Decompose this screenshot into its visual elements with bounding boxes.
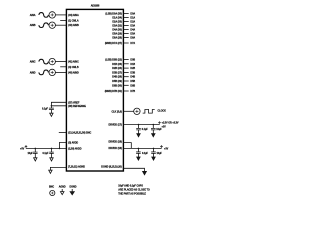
wire J3 to pin AINC (55, 61, 66, 63)
ground DGND C7 (152, 157, 155, 160)
node junction VREF (51, 105, 53, 107)
svg-text:D6B: D6B (130, 84, 135, 87)
capacitor C4 0.1uF (136, 125, 141, 130)
svg-text:(43) AINB: (43) AINB (68, 24, 79, 27)
BNC J5 clock (134, 108, 140, 114)
wire CMLB stub (60, 66, 66, 68)
svg-text:(3) AVDD: (3) AVDD (68, 141, 78, 144)
wire D1B (124, 63, 129, 65)
wire D1A (124, 17, 129, 19)
ground AGND C2 (34, 158, 37, 161)
BNC J3 (49, 58, 55, 64)
svg-text:(4) CMLB: (4) CMLB (68, 66, 79, 69)
BNC J4 (49, 69, 55, 75)
wire D5A (124, 33, 129, 35)
svg-text:D7A: D7A (130, 42, 135, 45)
wire D6B (124, 84, 129, 86)
svg-text:THE PART AS POSSIBLE: THE PART AS POSSIBLE (118, 192, 146, 195)
svg-text:D6A (28): D6A (28) (112, 37, 122, 40)
svg-text:0.1µF: 0.1µF (43, 152, 50, 155)
wire CMLA stub (60, 20, 66, 22)
wire AVDD rail (26, 147, 66, 149)
wire D2B (124, 67, 129, 69)
wire D4A (124, 29, 129, 31)
ground DGND (143, 171, 147, 174)
svg-text:D1B: D1B (130, 63, 135, 66)
node junction C3 (51, 148, 53, 150)
wire J4 to pin AIND (55, 71, 66, 73)
capacitor C3 0.1uF (49, 148, 54, 153)
ground DGND C6 (137, 157, 140, 160)
svg-text:DRVDD (18): DRVDD (18) (109, 140, 122, 143)
svg-text:D0A: D0A (130, 13, 135, 16)
svg-text:D1B (23): D1B (23) (112, 63, 122, 66)
svg-text:10µF: 10µF (156, 128, 162, 131)
svg-text:(2,39) AVDD: (2,39) AVDD (68, 147, 82, 150)
svg-text:D0B: D0B (130, 59, 135, 62)
svg-text:AD9288: AD9288 (91, 4, 100, 7)
wire sine B2 (39, 70, 49, 75)
ground AGND left (49, 170, 52, 173)
svg-text:DGND (8,15,19,26): DGND (8,15,19,26) (101, 166, 122, 169)
svg-text:(44) AINA: (44) AINA (68, 14, 79, 17)
svg-text:D5A (29): D5A (29) (112, 33, 122, 36)
wire REFSENSE (51, 106, 66, 108)
svg-text:10µF: 10µF (28, 152, 34, 155)
svg-text:D6A: D6A (130, 37, 135, 40)
node clock waveform (143, 110, 155, 114)
ground DGND C4 (137, 134, 140, 137)
svg-text:D3B: D3B (130, 71, 135, 74)
wire DRVDD1 rail (124, 124, 160, 126)
svg-text:D1A: D1A (130, 17, 135, 20)
op-amp U1 ADC AD9288 body (66, 9, 123, 171)
wire D6A (124, 37, 129, 39)
svg-text:D5A: D5A (130, 33, 135, 36)
svg-text:(LSB) D0B (22): (LSB) D0B (22) (105, 59, 122, 62)
svg-text:D3B (27): D3B (27) (112, 71, 122, 74)
svg-text:+3V: +3V (164, 148, 169, 151)
wire D0A (124, 13, 129, 15)
svg-text:(LSB) D0A (35): (LSB) D0A (35) (105, 13, 122, 16)
ground AGND C1 (50, 113, 53, 116)
node junction C6 (138, 148, 140, 150)
capacitor C7 10uF (151, 148, 156, 153)
svg-text:D3A (32): D3A (32) (112, 25, 122, 28)
svg-text:BNC: BNC (49, 186, 54, 189)
svg-text:(1) CMLA: (1) CMLA (68, 20, 79, 23)
svg-text:D7B: D7B (130, 90, 135, 93)
ground DGND C5 (152, 134, 155, 137)
svg-text:D5B: D5B (130, 80, 135, 83)
capacitor C2 10uF (33, 148, 38, 153)
capacitor C5 10uF (151, 125, 156, 130)
svg-text:+2.5V OR +3.3V: +2.5V OR +3.3V (162, 122, 179, 125)
node junction C2 (35, 148, 37, 150)
svg-text:(40) AIND: (40) AIND (68, 71, 79, 74)
wire D5B (124, 80, 129, 82)
svg-text:AINC: AINC (30, 61, 36, 64)
svg-text:D4B: D4B (130, 76, 135, 79)
svg-text:CLOCK: CLOCK (158, 110, 167, 113)
node junction C5 (153, 124, 155, 126)
BNC J2 (49, 22, 55, 28)
node +3V arrow right1 (158, 122, 160, 125)
wire DRVDD3 rail (124, 147, 162, 149)
wire D2A (124, 21, 129, 23)
svg-text:(MSB) D7B (31): (MSB) D7B (31) (105, 90, 122, 93)
BNC J1 (49, 12, 55, 18)
svg-text:(MSB) D7A (27): (MSB) D7A (27) (105, 42, 122, 45)
wire DGND (123, 168, 144, 171)
svg-text:D2A: D2A (130, 21, 135, 24)
capacitor C6 0.1uF (136, 148, 141, 153)
svg-text:(13,14,25,31,36) DNC: (13,14,25,31,36) DNC (68, 132, 91, 135)
svg-text:DGND: DGND (70, 186, 77, 189)
wire sine A2 (39, 23, 49, 28)
svg-text:0.1µF: 0.1µF (142, 152, 149, 155)
svg-text:D4B (28): D4B (28) (112, 76, 122, 79)
wire sine A1 (39, 13, 49, 18)
svg-text:CLK (5,6): CLK (5,6) (111, 110, 122, 113)
svg-text:10µF: 10µF (157, 152, 163, 155)
wire DNC stub (59, 132, 67, 134)
wire DRVDD2 stub (123, 143, 131, 149)
wire J1 to pin AINA (55, 14, 66, 16)
capacitor C1 0.1uF (49, 108, 54, 109)
svg-text:D1A (34): D1A (34) (112, 17, 122, 20)
svg-text:D3A: D3A (130, 25, 135, 28)
wire D4B (124, 76, 129, 78)
node junction AVDD stub (59, 148, 61, 150)
wire CLK (124, 110, 134, 112)
svg-text:(7,20,21) AGND: (7,20,21) AGND (68, 166, 85, 169)
svg-text:AINB: AINB (30, 24, 36, 27)
svg-text:D4A (30): D4A (30) (112, 29, 122, 32)
svg-text:(41) AINC: (41) AINC (68, 61, 79, 64)
wire D7B (124, 90, 129, 92)
wire AGND (50, 167, 66, 170)
node junction C4 (138, 124, 140, 126)
node +5V (25, 146, 27, 149)
svg-text:DRVDD (16): DRVDD (16) (109, 147, 122, 150)
node +3V arrow right2 (160, 146, 162, 149)
svg-text:D5B (29): D5B (29) (112, 80, 122, 83)
svg-text:0.1µF: 0.1µF (142, 128, 149, 131)
svg-text:DRVDD (17): DRVDD (17) (109, 123, 122, 126)
svg-text:ARE PLACED AS CLOSE TO: ARE PLACED AS CLOSE TO (118, 189, 150, 192)
wire J2 to pin AINB (55, 24, 66, 26)
wire sine B1 (39, 59, 49, 64)
svg-text:10µF AND 0.1µF CAPS: 10µF AND 0.1µF CAPS (118, 185, 143, 188)
svg-text:AGND: AGND (59, 186, 66, 189)
wire VREF (51, 102, 66, 106)
svg-text:+5V: +5V (20, 147, 25, 150)
wire D0B (124, 59, 129, 61)
svg-text:+3V: +3V (162, 125, 167, 128)
svg-text:D4A: D4A (130, 29, 135, 32)
node junction C7 (153, 148, 155, 150)
svg-text:0.1µF: 0.1µF (42, 108, 49, 111)
ground AGND C3 (50, 158, 53, 161)
svg-text:D2B (24): D2B (24) (112, 67, 122, 70)
svg-text:(38) REFSENSE: (38) REFSENSE (68, 105, 86, 108)
wire AVDD1 stub (60, 142, 67, 148)
wire D3A (124, 25, 129, 27)
svg-text:AINA: AINA (30, 14, 36, 17)
svg-text:D2A (33): D2A (33) (112, 21, 122, 24)
svg-text:D2B: D2B (130, 67, 135, 70)
wire D7A (124, 42, 129, 44)
svg-text:D6B (30): D6B (30) (112, 84, 122, 87)
svg-text:AIND: AIND (30, 71, 36, 74)
wire D3B (124, 71, 129, 73)
